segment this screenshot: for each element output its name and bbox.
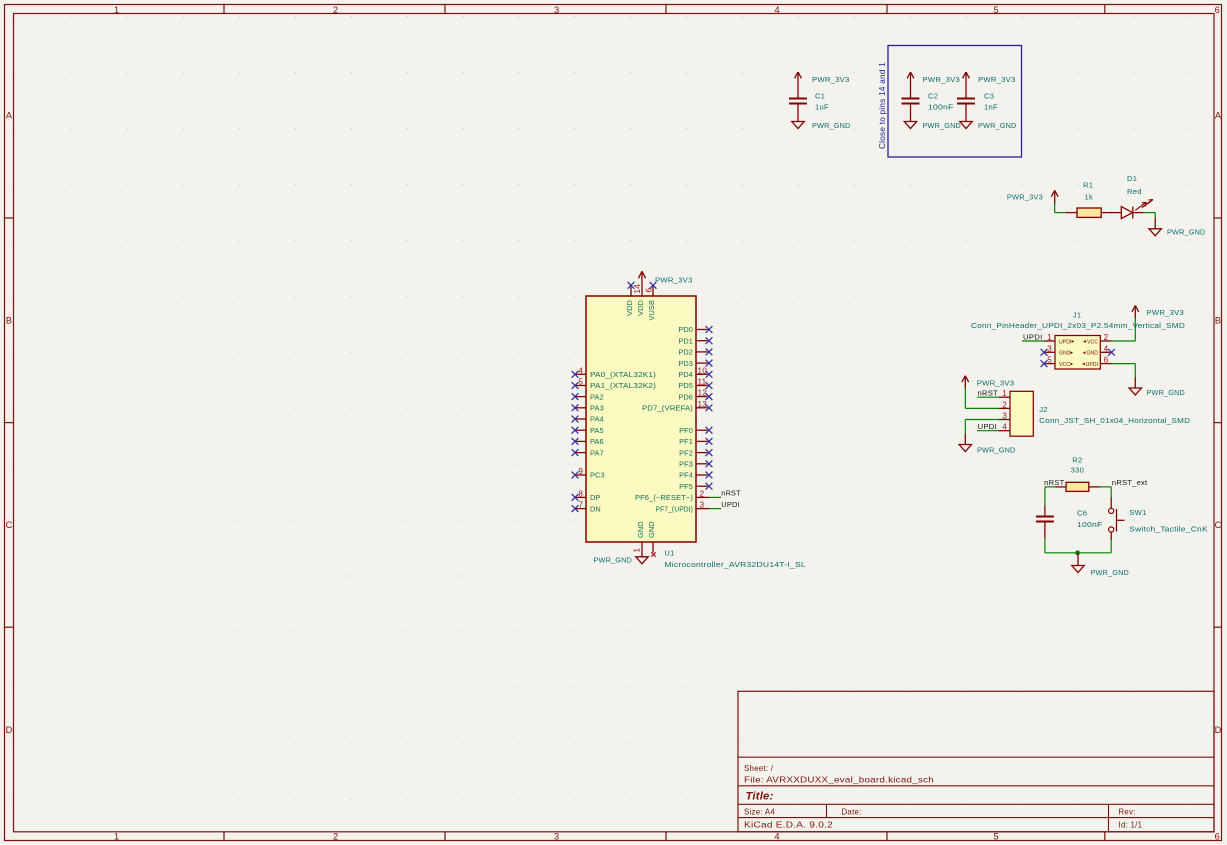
svg-text:3: 3 <box>1047 344 1052 353</box>
svg-text:Rev:: Rev: <box>1119 808 1136 817</box>
svg-text:Size: A4: Size: A4 <box>744 808 775 817</box>
svg-text:6: 6 <box>1215 5 1220 15</box>
J2 pin 3 <box>999 412 1010 421</box>
wire R2 to nRST_ext corner <box>1100 487 1111 498</box>
svg-text:PA7: PA7 <box>590 448 604 457</box>
svg-text:PA6: PA6 <box>590 437 604 446</box>
wire J2 pin 3 to PWR_GND <box>965 420 999 434</box>
svg-text:GND: GND <box>1086 351 1098 357</box>
svg-text:PD3: PD3 <box>678 359 693 368</box>
svg-text:D1: D1 <box>1127 174 1137 183</box>
svg-text:PA4: PA4 <box>590 415 604 424</box>
ground PWR_GND (C2) <box>904 121 961 130</box>
svg-text:3: 3 <box>554 5 559 15</box>
svg-text:PA2: PA2 <box>590 392 604 401</box>
power flag PWR_3V3 (C1) <box>795 72 850 87</box>
svg-text:2: 2 <box>1002 400 1007 409</box>
svg-text:R2: R2 <box>1072 455 1082 464</box>
svg-text:PWR_GND: PWR_GND <box>1147 388 1186 397</box>
J1 pin 6 UPDI <box>1082 356 1111 368</box>
svg-text:VDD: VDD <box>636 300 645 316</box>
svg-text:nRST_ext: nRST_ext <box>1112 478 1148 487</box>
svg-text:PWR_3V3: PWR_3V3 <box>1147 308 1185 317</box>
svg-text:PWR_3V3: PWR_3V3 <box>655 276 693 285</box>
wire nRST from U1 pin 2 <box>709 496 721 498</box>
wire UPDI to J2 pin 4 <box>977 430 999 432</box>
svg-text:A: A <box>1215 111 1222 121</box>
svg-text:VCC: VCC <box>1087 339 1098 345</box>
svg-text:PD1: PD1 <box>678 336 693 345</box>
svg-text:KiCad E.D.A. 9.0.2: KiCad E.D.A. 9.0.2 <box>744 820 833 829</box>
svg-text:2: 2 <box>333 832 338 842</box>
svg-text:PWR_GND: PWR_GND <box>1167 228 1206 237</box>
resistor R1 <box>1066 181 1112 218</box>
svg-text:PWR_GND: PWR_GND <box>923 121 962 130</box>
net label nRST_ext <box>1112 478 1148 487</box>
wire bottom net (C6 to SW1) <box>1045 552 1111 554</box>
svg-text:GND: GND <box>647 521 656 538</box>
U1 pin PF1 <box>679 437 712 446</box>
U1 pin PA4 <box>572 415 604 424</box>
svg-text:8: 8 <box>578 489 583 498</box>
junction bottom net <box>1075 550 1080 555</box>
svg-text:1nF: 1nF <box>984 103 998 112</box>
svg-text:J1: J1 <box>1073 311 1082 320</box>
svg-text:PF5: PF5 <box>679 482 693 491</box>
svg-text:D: D <box>1215 725 1222 735</box>
svg-text:DP: DP <box>590 493 600 502</box>
svg-text:PF2: PF2 <box>679 448 693 457</box>
svg-text:PWR_GND: PWR_GND <box>594 556 633 565</box>
svg-text:VDD: VDD <box>625 300 634 316</box>
power flag PWR_3V3 (C3) <box>963 72 1016 87</box>
svg-text:6: 6 <box>645 288 654 293</box>
wire C6 to bottom <box>1044 538 1046 553</box>
U1 pin PA6 <box>572 437 604 446</box>
svg-text:9: 9 <box>578 467 583 476</box>
svg-text:PC3: PC3 <box>590 471 605 480</box>
svg-text:nRST: nRST <box>978 389 999 398</box>
capacitor C3 <box>957 87 998 122</box>
svg-text:5: 5 <box>993 832 998 842</box>
U1 reference U1 <box>664 549 674 558</box>
svg-text:C: C <box>6 520 13 530</box>
svg-text:C3: C3 <box>984 92 994 101</box>
svg-text:PD5: PD5 <box>678 381 693 390</box>
svg-text:PD7_(VREFA): PD7_(VREFA) <box>642 404 693 413</box>
J1 pin 2 VCC with PWR_3V3 <box>1083 333 1111 345</box>
svg-text:PWR_GND: PWR_GND <box>978 121 1017 130</box>
svg-text:PA3: PA3 <box>590 404 604 413</box>
U1 pin VDD (14) with PWR_3V3 <box>633 271 693 316</box>
svg-text:PF7_(UPDI): PF7_(UPDI) <box>656 504 694 513</box>
svg-text:B: B <box>6 315 12 325</box>
U1 pin PD4 (10) <box>678 366 712 379</box>
svg-text:1: 1 <box>1002 389 1007 398</box>
J1 pin 3 GND <box>1041 344 1073 356</box>
J2 pin 1 <box>999 389 1010 398</box>
svg-text:PA5: PA5 <box>590 426 604 435</box>
svg-text:4: 4 <box>774 832 779 842</box>
U1 pin PD6 (12) <box>678 389 712 402</box>
svg-text:Date:: Date: <box>842 808 862 817</box>
svg-text:4: 4 <box>578 366 583 375</box>
U1 pin PF0 <box>679 426 712 435</box>
ground PWR_GND (C3) <box>960 121 1017 130</box>
U1 pin PF2 <box>679 448 712 457</box>
wire nRST to J2 pin 1 <box>977 396 999 398</box>
U1 pin PD2 <box>678 348 712 357</box>
ground PWR_GND (C1) <box>792 121 851 130</box>
net label nRST (J2) <box>978 389 999 398</box>
U1 pin PA2 <box>572 392 604 401</box>
wire UPDI from U1 pin 3 <box>709 508 721 510</box>
svg-text:3: 3 <box>700 501 705 510</box>
svg-text:PD2: PD2 <box>678 348 693 357</box>
svg-text:Close to pins 14 and 1: Close to pins 14 and 1 <box>878 62 887 149</box>
svg-text:Sheet: /: Sheet: / <box>744 764 774 773</box>
wire SW1 to bottom <box>1110 540 1112 553</box>
svg-text:PF6_(~RESET~): PF6_(~RESET~) <box>635 493 693 502</box>
net label nRST (R2) <box>1044 478 1065 487</box>
svg-text:1k: 1k <box>1085 192 1094 201</box>
svg-text:UPDI: UPDI <box>978 422 998 431</box>
J1 reference J1 <box>1073 311 1082 320</box>
power flag PWR_3V3 (J2) <box>962 376 1014 389</box>
U1 pin DP (8) <box>572 489 601 502</box>
svg-text:PA1_(XTAL32K2): PA1_(XTAL32K2) <box>590 381 656 390</box>
svg-text:PWR_3V3: PWR_3V3 <box>977 379 1015 388</box>
wire J1 pin 2 to PWR_3V3 <box>1112 319 1136 342</box>
wire J2 pin 2 to PWR_3V3 <box>965 389 999 409</box>
power flag PWR_3V3 (R1) <box>1007 190 1058 203</box>
svg-text:100nF: 100nF <box>1077 520 1103 529</box>
U1 pin PD3 <box>678 359 712 368</box>
net label UPDI (J2) <box>978 422 998 431</box>
ground PWR_GND (R2/C6/SW1) <box>1072 553 1129 577</box>
svg-text:PWR_3V3: PWR_3V3 <box>1007 192 1043 201</box>
U1 pin PF6_(~RESET~) (2) <box>635 490 709 503</box>
switch SW1 <box>1109 498 1208 541</box>
svg-text:UPDI: UPDI <box>1023 333 1043 342</box>
U1 pin PA1_(XTAL32K2) (5) <box>572 378 656 391</box>
connector J1 body <box>1055 336 1100 370</box>
svg-text:4: 4 <box>1104 344 1109 353</box>
U1 pin PA7 <box>572 448 604 457</box>
microcontroller U1 body <box>586 296 696 542</box>
U1 pin PD5 (11) <box>678 378 712 391</box>
U1 pin VUSB (6) <box>645 282 657 321</box>
svg-text:nRST: nRST <box>1044 478 1065 487</box>
svg-text:A: A <box>6 111 13 121</box>
svg-text:VCC: VCC <box>1059 362 1070 368</box>
J1 pin 4 GND <box>1083 344 1115 356</box>
net label nRST (U1) <box>721 488 741 497</box>
svg-text:GND: GND <box>636 521 645 538</box>
svg-text:VUSB: VUSB <box>647 300 656 321</box>
title block <box>738 691 1214 832</box>
capacitor C1 <box>789 87 829 122</box>
svg-text:PWR_3V3: PWR_3V3 <box>812 75 850 84</box>
svg-text:nRST: nRST <box>721 488 741 497</box>
svg-text:3: 3 <box>1002 412 1007 421</box>
svg-text:C1: C1 <box>815 92 825 101</box>
U1 pin PA3 <box>572 404 604 413</box>
svg-text:Conn_JST_SH_01x04_Horizontal_S: Conn_JST_SH_01x04_Horizontal_SMD <box>1039 416 1190 425</box>
svg-text:Conn_PinHeader_UPDI_2x03_P2.54: Conn_PinHeader_UPDI_2x03_P2.54mm_Vertica… <box>971 321 1185 330</box>
wire D1 to PWR_GND <box>1144 213 1155 219</box>
ground PWR_GND (J2) <box>959 434 1016 455</box>
svg-text:J2: J2 <box>1039 405 1048 414</box>
capacitor C2 <box>902 87 954 122</box>
U1 pin GND (right bottom, DNC) <box>647 521 656 556</box>
svg-text:4: 4 <box>774 5 779 15</box>
svg-text:GND: GND <box>1059 351 1071 357</box>
wire PWR_3V3 to R1 <box>1055 204 1066 213</box>
svg-text:PWR_3V3: PWR_3V3 <box>978 75 1016 84</box>
svg-text:PF4: PF4 <box>679 471 693 480</box>
J2 pin 2 <box>999 400 1010 409</box>
ground PWR_GND (D1) <box>1149 218 1206 237</box>
svg-text:5: 5 <box>1047 356 1052 365</box>
svg-text:Id: 1/1: Id: 1/1 <box>1119 820 1143 829</box>
svg-text:PWR_GND: PWR_GND <box>812 121 851 130</box>
svg-text:1uF: 1uF <box>815 103 829 112</box>
U1 pin PF3 <box>679 460 712 469</box>
svg-text:U1: U1 <box>664 549 674 558</box>
svg-text:D: D <box>6 725 13 735</box>
U1 value Microcontroller_AVR32DU14T-I_SL <box>664 560 806 569</box>
svg-text:PF1: PF1 <box>679 437 693 446</box>
svg-text:6: 6 <box>1104 356 1109 365</box>
connector J2 body <box>1010 391 1033 436</box>
svg-text:PF3: PF3 <box>679 460 693 469</box>
capacitor C6 <box>1036 506 1103 539</box>
U1 pin PF4 <box>679 471 712 480</box>
svg-text:B: B <box>1215 315 1221 325</box>
svg-text:3: 3 <box>554 832 559 842</box>
net label UPDI (J1) <box>1023 333 1043 342</box>
U1 pin PD0 <box>678 325 712 334</box>
U1 pin PA0_(XTAL32K1) (4) <box>572 366 656 379</box>
net label UPDI (U1) <box>721 500 740 509</box>
svg-text:C: C <box>1215 520 1222 530</box>
svg-text:DN: DN <box>590 504 601 513</box>
svg-text:5: 5 <box>993 5 998 15</box>
svg-text:5: 5 <box>578 378 583 387</box>
svg-text:PWR_GND: PWR_GND <box>977 445 1016 454</box>
svg-text:1: 1 <box>114 5 119 15</box>
J1 pin 1 UPDI <box>1044 333 1074 345</box>
svg-text:C6: C6 <box>1077 509 1087 518</box>
svg-text:R1: R1 <box>1083 181 1093 190</box>
power flag PWR_3V3 (C2) <box>907 72 960 87</box>
svg-text:PD6: PD6 <box>678 392 693 401</box>
svg-text:PWR_3V3: PWR_3V3 <box>923 75 961 84</box>
svg-text:UPDI: UPDI <box>1086 362 1098 368</box>
svg-text:Microcontroller_AVR32DU14T-I_S: Microcontroller_AVR32DU14T-I_SL <box>664 560 806 569</box>
U1 pin PC3 (9) <box>572 467 605 480</box>
R2 reference R2 <box>1072 455 1082 464</box>
svg-text:PD0: PD0 <box>678 325 693 334</box>
U1 pin DN (7) <box>572 501 601 514</box>
svg-text:1: 1 <box>1047 333 1052 342</box>
svg-text:UPDI: UPDI <box>721 500 740 509</box>
wire UPDI to J1 pin 1 <box>1022 340 1044 342</box>
svg-text:4: 4 <box>1002 423 1007 432</box>
svg-text:330: 330 <box>1071 465 1085 474</box>
J2 reference J2 <box>1039 405 1048 414</box>
power flag PWR_3V3 (J1) <box>1132 306 1184 319</box>
U1 pin PD7_(VREFA) (13) <box>642 400 712 413</box>
U1 pin PF7_(UPDI) (3) <box>656 501 710 514</box>
wire J1 pin 6 to PWR_GND <box>1112 364 1136 378</box>
U1 pin PF5 <box>679 482 712 491</box>
J2 pin 4 <box>999 423 1010 432</box>
svg-text:SW1: SW1 <box>1129 508 1146 517</box>
svg-text:PD4: PD4 <box>678 370 693 379</box>
svg-text:2: 2 <box>333 5 338 15</box>
svg-text:2: 2 <box>700 490 705 499</box>
svg-text:PA0_(XTAL32K1): PA0_(XTAL32K1) <box>590 370 656 379</box>
svg-text:1: 1 <box>633 548 642 553</box>
svg-text:C2: C2 <box>928 92 938 101</box>
ground PWR_GND (J1) <box>1129 377 1185 397</box>
U1 pin PA5 <box>572 426 604 435</box>
J1 value Conn_PinHeader_UPDI_2x03_P2.54mm_Vertical_SMD <box>971 321 1185 330</box>
wire nRST corner to R2 <box>1045 487 1055 506</box>
J1 pin 5 VCC <box>1041 356 1073 368</box>
U1 pin VDD (left top) <box>625 282 634 316</box>
svg-text:1: 1 <box>114 832 119 842</box>
note box: close to pins 14 and 1 <box>878 46 1022 158</box>
svg-text:PF0: PF0 <box>679 426 693 435</box>
svg-text:UPDI: UPDI <box>1059 339 1071 345</box>
resistor R2 <box>1055 482 1100 491</box>
svg-text:PWR_GND: PWR_GND <box>1091 568 1130 577</box>
svg-text:14: 14 <box>633 284 642 294</box>
svg-text:Title:: Title: <box>746 791 774 803</box>
LED D1 <box>1110 174 1153 219</box>
J2 value Conn_JST_SH_01x04_Horizontal_SMD <box>1039 416 1190 425</box>
U1 pin PD1 <box>678 336 712 345</box>
svg-text:Red: Red <box>1127 187 1142 196</box>
U1 pin GND (1) with PWR_GND <box>594 521 649 564</box>
svg-text:11: 11 <box>698 378 707 387</box>
svg-text:Switch_Tactile_CnK: Switch_Tactile_CnK <box>1129 525 1208 534</box>
R2 value 330 <box>1071 465 1085 474</box>
svg-text:6: 6 <box>1215 832 1220 842</box>
svg-text:7: 7 <box>578 501 583 510</box>
svg-text:100nF: 100nF <box>928 103 954 112</box>
svg-text:2: 2 <box>1104 333 1109 342</box>
svg-text:File: AVRXXDUXX_eval_board.kic: File: AVRXXDUXX_eval_board.kicad_sch <box>744 776 934 785</box>
